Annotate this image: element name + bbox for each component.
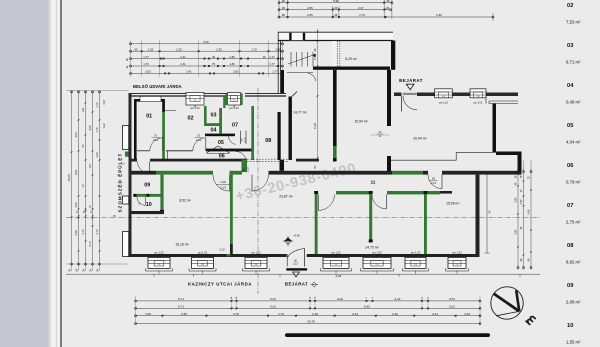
wall B green segments <box>336 191 452 194</box>
top exterior wall left section <box>131 93 286 96</box>
label 1,00 2,13 <box>216 180 230 189</box>
svg-text:KAZINCZY UTCAI JÁRDA: KAZINCZY UTCAI JÁRDA <box>188 281 252 286</box>
svg-text:2,44: 2,44 <box>352 312 358 316</box>
svg-text:2,13: 2,13 <box>153 138 159 142</box>
svg-text:6,30: 6,30 <box>436 13 442 17</box>
middle wall A green segments <box>156 171 423 175</box>
svg-text:1,76: 1,76 <box>95 127 99 133</box>
svg-text:9,71 m²: 9,71 m² <box>566 59 581 64</box>
courtyard chain vertical connectors <box>126 41 283 77</box>
niche line room 02 <box>165 109 176 111</box>
wall under room 10 <box>131 211 164 214</box>
green wall room 04 horizontal <box>204 123 222 126</box>
window B7 bottom <box>446 250 469 274</box>
svg-text:10,65: 10,65 <box>67 174 71 182</box>
level mark small room 15,59 removed <box>0 0 1 1</box>
black cap wall x230 <box>230 244 233 254</box>
svg-text:07: 07 <box>232 122 238 128</box>
green pier between doors <box>242 160 248 173</box>
courtyard dimension chain row 4 <box>130 62 284 67</box>
svg-text:03: 03 <box>567 43 574 49</box>
svg-text:04: 04 <box>211 128 217 134</box>
legend room 04 <box>566 83 581 105</box>
svg-text:2,13: 2,13 <box>293 263 298 266</box>
svg-text:2,65: 2,65 <box>233 70 239 74</box>
interior dim 10 14 <box>370 131 390 138</box>
window B3 bottom <box>243 250 270 274</box>
svg-text:pm 1,02: pm 1,02 <box>474 102 483 105</box>
svg-text:06: 06 <box>567 163 574 169</box>
svg-text:7,53 m²: 7,53 m² <box>566 19 581 24</box>
window B1 bottom <box>146 250 173 274</box>
north wing bottom wall <box>287 67 390 73</box>
svg-text:1,77: 1,77 <box>269 55 275 59</box>
stair steps <box>288 52 316 67</box>
svg-text:5,71: 5,71 <box>178 305 184 309</box>
svg-text:10: 10 <box>146 202 152 208</box>
bottom dimension chain row A <box>135 297 482 302</box>
left wall green door mark <box>125 152 129 157</box>
door D02 arc <box>193 134 206 151</box>
legend room 09 <box>566 283 581 305</box>
door DB arc <box>252 175 269 192</box>
svg-text:2,13: 2,13 <box>431 181 437 185</box>
svg-text:0,79 m²: 0,79 m² <box>566 179 581 184</box>
svg-text:16,16 m²: 16,16 m² <box>175 243 189 247</box>
svg-text:1,57: 1,57 <box>88 163 92 169</box>
svg-text:916: 916 <box>255 264 258 266</box>
room 01 right wall green <box>162 112 165 159</box>
svg-text:2,41: 2,41 <box>180 62 186 66</box>
svg-text:pm 1,02: pm 1,02 <box>251 250 261 254</box>
wall 14,77-15,94 <box>333 70 337 162</box>
svg-text:1,55 m²: 1,55 m² <box>566 339 581 344</box>
left wall pilaster 3 <box>123 232 129 257</box>
left dimension chains <box>66 91 129 272</box>
svg-text:2,41: 2,41 <box>432 312 438 316</box>
svg-text:10: 10 <box>567 323 573 329</box>
right chain numbers <box>515 175 531 261</box>
legend room 05 <box>566 123 581 145</box>
window B6 bottom <box>403 250 429 274</box>
svg-text:pm 1,02: pm 1,02 <box>452 250 462 254</box>
svg-text:916: 916 <box>442 96 445 98</box>
left wall pilaster 1 <box>123 126 129 150</box>
top dimension chain row 2 <box>278 6 392 11</box>
svg-text:2,37: 2,37 <box>102 99 106 105</box>
wall 15,94-20,94 lower <box>387 156 391 171</box>
svg-text:916: 916 <box>456 264 459 266</box>
svg-text:5,01: 5,01 <box>270 297 276 301</box>
top chain extension lines <box>279 0 493 21</box>
room doors wall <box>137 151 211 161</box>
wall 02-03 green <box>204 106 207 123</box>
svg-text:05: 05 <box>567 123 574 129</box>
svg-text:SZOMSZÉD ÉPÜLET: SZOMSZÉD ÉPÜLET <box>116 153 123 213</box>
svg-text:09: 09 <box>144 183 150 189</box>
svg-text:03: 03 <box>211 113 217 119</box>
svg-text:+0,90: +0,90 <box>293 234 300 238</box>
svg-text:07: 07 <box>567 203 573 209</box>
svg-text:10: 10 <box>262 55 266 59</box>
svg-text:2,44: 2,44 <box>95 152 99 158</box>
right section corner step <box>486 96 518 104</box>
door D01 arc <box>150 134 163 151</box>
svg-text:pm 1,02: pm 1,02 <box>439 102 448 105</box>
opening 2,13 small <box>219 248 230 257</box>
legend room 06 <box>566 163 581 185</box>
bottom chain row A small ticks <box>231 296 430 299</box>
svg-text:08: 08 <box>567 243 574 249</box>
svg-text:36: 36 <box>386 6 390 10</box>
svg-text:1,00: 1,00 <box>220 180 226 184</box>
svg-text:5,38: 5,38 <box>313 123 317 129</box>
svg-text:3,51: 3,51 <box>449 305 455 309</box>
svg-text:3,51: 3,51 <box>449 297 455 301</box>
svg-text:14,77 m²: 14,77 m² <box>293 111 307 115</box>
svg-text:2,32: 2,32 <box>392 312 398 316</box>
floor step line room 20,94 <box>391 153 521 161</box>
svg-text:2,08 m²: 2,08 m² <box>566 299 581 304</box>
svg-text:24,75 m²: 24,75 m² <box>365 246 379 250</box>
left exterior wall <box>129 93 132 257</box>
svg-text:2,56: 2,56 <box>181 312 187 316</box>
svg-text:7F: 7F <box>113 214 116 218</box>
svg-text:20,76: 20,76 <box>307 319 315 323</box>
svg-text:5,71: 5,71 <box>178 297 184 301</box>
svg-text:1,70: 1,70 <box>251 47 257 51</box>
svg-text:75: 75 <box>212 62 216 66</box>
svg-text:916: 916 <box>376 264 379 266</box>
svg-text:2,75 m²: 2,75 m² <box>566 219 581 224</box>
courtyard dimension chain 9.16 <box>130 40 284 45</box>
right jog wall horizontal <box>496 152 522 156</box>
svg-text:916: 916 <box>158 264 161 266</box>
window W1 top <box>186 92 204 110</box>
svg-text:65: 65 <box>134 47 138 51</box>
svg-text:3,22: 3,22 <box>337 297 343 301</box>
legend room 03 <box>566 43 581 65</box>
svg-text:4,06: 4,06 <box>88 125 92 131</box>
svg-text:06: 06 <box>219 154 225 160</box>
svg-text:3,43: 3,43 <box>520 199 523 204</box>
svg-text:38: 38 <box>282 6 286 10</box>
window W3 top right <box>435 89 453 98</box>
svg-text:4,04 m²: 4,04 m² <box>566 139 581 144</box>
svg-text:BEJÁRAT: BEJÁRAT <box>399 77 423 83</box>
svg-text:5,01: 5,01 <box>270 305 276 309</box>
svg-text:1,12: 1,12 <box>102 123 106 129</box>
door 20,94 arc <box>402 93 418 112</box>
legend room 07 <box>566 203 581 225</box>
svg-text:pm 1,02: pm 1,02 <box>331 250 341 254</box>
svg-text:pm 1,02: pm 1,02 <box>198 250 208 254</box>
svg-text:2,73: 2,73 <box>359 13 365 17</box>
right boundary dim line <box>485 174 492 253</box>
svg-text:5,98: 5,98 <box>333 0 339 3</box>
svg-text:36: 36 <box>334 13 338 17</box>
svg-text:2,13: 2,13 <box>244 137 247 142</box>
svg-text:1,77: 1,77 <box>272 70 278 74</box>
svg-text:2,39: 2,39 <box>216 47 222 51</box>
corner block under 08 <box>280 160 285 171</box>
wall above 06 <box>206 149 252 152</box>
door hall arc <box>138 162 150 174</box>
svg-text:916: 916 <box>477 96 480 98</box>
svg-text:40: 40 <box>212 55 216 59</box>
level mark +0,90 room 23,87 <box>283 234 300 247</box>
label 90 2,13 rotated <box>242 167 250 173</box>
left margin strip <box>0 0 48 347</box>
svg-text:02: 02 <box>567 3 573 9</box>
north compass <box>491 287 536 325</box>
svg-text:2,13: 2,13 <box>219 248 225 252</box>
room 01 niche <box>140 96 161 101</box>
svg-text:2,70: 2,70 <box>88 241 92 247</box>
door room 06 arc <box>236 152 246 162</box>
svg-text:05: 05 <box>218 140 224 146</box>
top dimension chain row 1 <box>278 0 393 4</box>
window B5 bottom <box>361 250 394 274</box>
entrance door bottom <box>286 248 307 277</box>
green partition x316 <box>314 191 318 254</box>
door DE arc <box>428 175 442 189</box>
svg-text:2,65: 2,65 <box>307 13 313 17</box>
hall bottom wall <box>131 159 319 162</box>
legend room 02 <box>566 3 581 25</box>
legend room 08 <box>566 243 581 265</box>
bottom dimension chain total 20,76 <box>135 319 482 324</box>
svg-text:8,01: 8,01 <box>74 169 78 175</box>
svg-text:2,13: 2,13 <box>246 167 250 173</box>
svg-text:23,87 m²: 23,87 m² <box>279 195 293 199</box>
right dimension chains <box>517 160 532 270</box>
svg-text:5,29 m²: 5,29 m² <box>345 57 357 61</box>
green wall above room 03 <box>223 96 225 108</box>
svg-text:8,82 m²: 8,82 m² <box>566 259 581 264</box>
svg-text:2,03: 2,03 <box>145 70 151 74</box>
svg-text:08: 08 <box>265 138 271 144</box>
svg-text:1,45: 1,45 <box>313 54 317 60</box>
wall under 03-04 <box>205 134 235 137</box>
svg-text:2,41: 2,41 <box>180 55 186 59</box>
room 01 left wall <box>134 99 137 159</box>
north wing top wall <box>278 32 393 40</box>
svg-text:2,65: 2,65 <box>307 6 313 10</box>
svg-text:916: 916 <box>335 264 338 266</box>
svg-text:1,80: 1,80 <box>229 55 235 59</box>
svg-text:pm 1,02: pm 1,02 <box>411 250 421 254</box>
svg-text:11: 11 <box>371 179 376 184</box>
top exterior wall right section <box>394 93 518 97</box>
bottom exterior wall <box>129 254 480 257</box>
svg-text:1,70: 1,70 <box>143 62 149 66</box>
svg-text:1,70: 1,70 <box>278 312 284 316</box>
door arc stairs hall <box>308 74 316 82</box>
svg-text:15,94 m²: 15,94 m² <box>354 120 368 124</box>
svg-text:916: 916 <box>233 100 236 102</box>
svg-text:1,56: 1,56 <box>145 312 151 316</box>
axis line horizontal <box>66 217 540 219</box>
svg-text:2,39: 2,39 <box>312 312 318 316</box>
green wall left of 23,87 <box>230 175 233 244</box>
svg-text:1,05: 1,05 <box>148 47 154 51</box>
middle wall A black segments <box>131 171 522 175</box>
svg-text:01: 01 <box>146 114 152 120</box>
green wall room 04 vertical <box>219 108 222 134</box>
svg-text:09: 09 <box>567 283 574 289</box>
dotted demolished wall <box>332 41 340 70</box>
wing shaft box <box>289 33 305 40</box>
svg-text:04: 04 <box>567 83 574 89</box>
svg-text:8,62: 8,62 <box>364 305 370 309</box>
svg-text:pm 1,02: pm 1,02 <box>154 250 164 254</box>
courtyard dimension chain row 5 <box>130 70 284 75</box>
window B2 bottom <box>189 250 216 274</box>
axis line vertical <box>257 88 259 294</box>
svg-text:2,70: 2,70 <box>81 229 85 235</box>
courtyard dimension chain row 2 <box>130 47 284 52</box>
rooms 09-10 walls <box>133 175 164 214</box>
room 08 right wall <box>278 112 281 160</box>
svg-text:3,22: 3,22 <box>394 297 400 301</box>
svg-text:4,04: 4,04 <box>74 132 78 138</box>
wall 15,94-20,94 upper <box>387 70 391 126</box>
top dimension chain row 3 <box>278 13 494 18</box>
left chain door cluster <box>77 208 94 217</box>
north wing right wall <box>391 41 395 70</box>
svg-text:9,16: 9,16 <box>203 40 209 44</box>
green partition x425 <box>424 191 428 254</box>
svg-text:02: 02 <box>188 116 194 122</box>
svg-text:3,02: 3,02 <box>74 202 78 208</box>
svg-text:0,49 m²: 0,49 m² <box>566 99 581 104</box>
bottom chain connectors <box>136 296 481 326</box>
bottom dimension chain row C <box>135 312 482 317</box>
svg-text:1,77: 1,77 <box>143 55 149 59</box>
bottom dimension chain row B <box>135 305 482 310</box>
interior dim line x317 <box>313 29 319 168</box>
svg-text:3,76: 3,76 <box>233 312 239 316</box>
svg-text:15,59 m²: 15,59 m² <box>446 202 460 206</box>
entrance arrow top <box>406 84 414 90</box>
door wall B arc 2 <box>372 194 387 209</box>
svg-text:36: 36 <box>386 0 390 3</box>
room 01 right wall black top <box>162 99 165 112</box>
svg-text:1,53: 1,53 <box>464 312 470 316</box>
svg-text:1,21: 1,21 <box>81 107 85 113</box>
svg-text:20,94 m²: 20,94 m² <box>413 137 427 141</box>
double door room 05 <box>207 146 230 153</box>
door room 10 arc <box>137 197 146 206</box>
pavement line <box>66 274 540 276</box>
door 06 small arc <box>228 136 235 145</box>
svg-text:3,82: 3,82 <box>515 229 518 234</box>
svg-text:8,52 m²: 8,52 m² <box>179 199 191 203</box>
svg-text:5,85: 5,85 <box>515 197 518 202</box>
svg-text:38: 38 <box>282 13 286 17</box>
legend room 10 <box>566 323 581 345</box>
scale bar <box>285 333 490 337</box>
window W2 top <box>225 92 242 110</box>
svg-text:2,41: 2,41 <box>186 70 192 74</box>
door 07 jambs <box>241 131 247 144</box>
right exterior wall lower <box>476 175 480 255</box>
level diamond bottom <box>311 282 319 287</box>
svg-text:2,26: 2,26 <box>74 230 78 236</box>
svg-text:1,70: 1,70 <box>95 102 99 108</box>
left chain numbers <box>67 99 106 272</box>
svg-text:2,70: 2,70 <box>95 229 99 235</box>
svg-text:5,45: 5,45 <box>528 209 531 214</box>
svg-text:pm 1,02: pm 1,02 <box>372 250 382 254</box>
page edge line <box>60 0 62 347</box>
right wall upper <box>493 104 497 153</box>
svg-text:38: 38 <box>282 0 286 3</box>
svg-text:2,13: 2,13 <box>220 185 226 189</box>
room 01 top wall <box>134 99 164 102</box>
green partition x370 <box>369 191 373 242</box>
svg-text:36: 36 <box>334 6 338 10</box>
svg-text:BEJÁRAT: BEJÁRAT <box>285 281 308 286</box>
courtyard dimension chain row 3 <box>130 55 284 60</box>
wall left of 14,77 <box>289 92 298 161</box>
left wall pilaster 2 <box>123 196 129 204</box>
window W4 top right <box>470 89 486 98</box>
svg-text:1,77: 1,77 <box>269 62 275 66</box>
window B4 bottom <box>321 250 352 274</box>
svg-text:BELSŐ UDVARI JÁRDA: BELSŐ UDVARI JÁRDA <box>133 84 182 89</box>
door wall B arc 1 <box>319 194 335 210</box>
svg-text:916: 916 <box>201 264 204 266</box>
svg-text:2,13: 2,13 <box>196 138 202 142</box>
door DA arc <box>213 175 230 192</box>
north wing left wall <box>278 32 284 93</box>
room 08 left green wall <box>251 106 254 160</box>
svg-text:2,67: 2,67 <box>358 6 364 10</box>
svg-text:916: 916 <box>194 100 197 102</box>
svg-text:1,80: 1,80 <box>229 62 235 66</box>
right jog wall vertical <box>518 155 522 175</box>
svg-text:2,29: 2,29 <box>176 47 182 51</box>
svg-text:916: 916 <box>414 264 417 266</box>
